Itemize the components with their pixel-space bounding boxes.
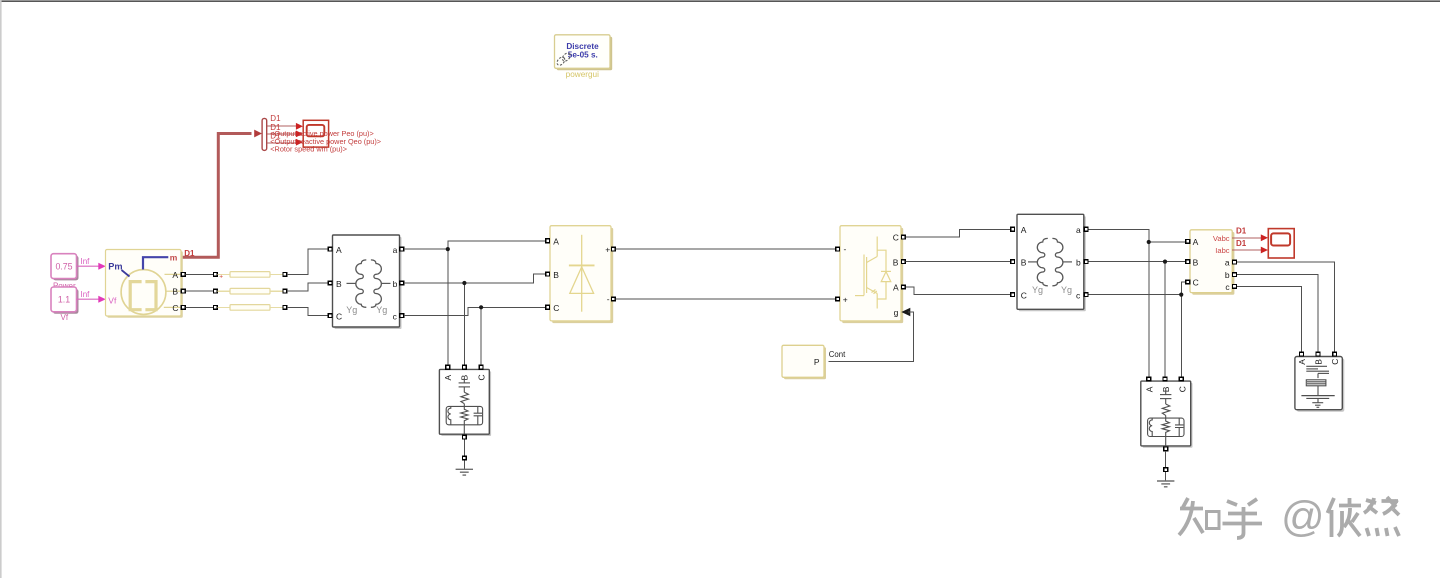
port B t2: [1011, 260, 1015, 264]
wire t2 a to measurement A: [1088, 229, 1185, 242]
wire junction C down to load C: [480, 307, 482, 365]
Pm pointer line: [122, 270, 130, 277]
transformer2 winding right: [1052, 238, 1063, 285]
machine m internal wire: [143, 257, 168, 269]
left window edge: [0, 0, 2, 578]
port B t1: [328, 281, 332, 285]
battery port B: [1316, 352, 1320, 356]
wire junction c up to measurement C: [1181, 282, 1185, 295]
wire t2 c to junction c: [1088, 294, 1181, 296]
svg-text:D1: D1: [1236, 227, 1247, 236]
wire t1 c to rectifier C: [404, 307, 545, 315]
port a meas: [1233, 260, 1237, 264]
svg-text:Cont: Cont: [829, 350, 846, 359]
wire branch C to transformer1 C: [287, 307, 328, 315]
wire junction B down to load B: [463, 283, 465, 365]
node junction C: [479, 305, 483, 309]
transformer1 left stub: [347, 282, 356, 284]
controller P block: [782, 345, 826, 379]
wire junction A up and to rectifier A: [448, 241, 546, 249]
wire t2 b to measurement B: [1088, 261, 1185, 263]
svg-text:D1: D1: [184, 249, 195, 258]
wire meas a to battery C: [1237, 262, 1335, 352]
watermark 知: [1179, 498, 1219, 535]
svg-text:a: a: [1076, 225, 1081, 235]
series RLC branch B: [214, 288, 287, 294]
wire P to g: [829, 312, 914, 361]
port b meas: [1233, 273, 1237, 277]
svg-text:+: +: [605, 244, 610, 254]
svg-text:Vf: Vf: [108, 295, 117, 305]
svg-text:C: C: [1193, 278, 1199, 288]
port C machine: [181, 306, 185, 310]
wire inverter B to t2 B: [906, 261, 1013, 263]
transformer1 winding right: [371, 260, 382, 307]
port plus rectifier: [611, 247, 615, 251]
svg-text:0.75: 0.75: [55, 262, 72, 272]
wire D1 thick (machine m output to bus selector): [182, 134, 252, 258]
svg-text:A: A: [1193, 237, 1199, 247]
node junction A: [446, 247, 450, 251]
node junction c: [1179, 293, 1183, 297]
port a t1: [400, 247, 404, 251]
port B inverter: [901, 260, 905, 264]
svg-text:C: C: [553, 303, 559, 313]
wire ground2: [1165, 472, 1167, 481]
top window edge: [0, 0, 1440, 2]
svg-text:powergui: powergui: [566, 70, 599, 79]
powergui chain icon: [556, 52, 572, 67]
load1 interior RLC icon: [446, 378, 482, 434]
wire t1 b to rectifier B: [404, 274, 545, 283]
battery interior icon: [1301, 366, 1334, 407]
rectifier block (diode bridge): [550, 226, 613, 323]
svg-text:c: c: [1225, 282, 1230, 292]
transformer2 block: [1017, 214, 1086, 311]
transformer1 right stub: [382, 282, 391, 284]
svg-text:C: C: [1330, 359, 1340, 365]
svg-text:-: -: [607, 294, 610, 304]
arrow into Vf: [98, 296, 106, 303]
arrow Vabc into scope2: [1261, 234, 1268, 241]
port c t2: [1084, 293, 1088, 297]
port c t1: [400, 314, 404, 318]
port minus rectifier: [611, 297, 615, 301]
port A machine: [181, 273, 185, 277]
svg-text:C: C: [893, 233, 899, 243]
svg-text:b: b: [1225, 270, 1230, 280]
svg-text:B: B: [1193, 257, 1199, 267]
svg-text:+: +: [219, 273, 223, 280]
svg-text:C: C: [336, 312, 342, 322]
wire branch B to transformer1 B: [287, 283, 328, 291]
svg-text:g: g: [894, 308, 899, 318]
scope2: [1268, 229, 1294, 258]
svg-text:1.1: 1.1: [58, 295, 70, 305]
svg-text:Yg: Yg: [1061, 285, 1072, 295]
port c meas: [1233, 285, 1237, 289]
ground 2 symbol: [1157, 481, 1174, 487]
synchronous machine block: [106, 250, 183, 318]
svg-text:D1: D1: [270, 114, 281, 123]
watermark 然: [1364, 497, 1399, 536]
load2 output port: [1164, 447, 1168, 451]
wire machine B to branch B: [186, 290, 213, 292]
ground1 port: [463, 456, 467, 460]
constant block 0.75: [51, 254, 79, 281]
node junction b: [1163, 260, 1167, 264]
wire load1 to ground port: [463, 440, 465, 456]
svg-text:@: @: [1281, 493, 1325, 541]
wire meas c to battery A: [1237, 286, 1302, 352]
svg-text:Vabc: Vabc: [1213, 234, 1230, 243]
svg-text:C: C: [172, 303, 178, 313]
svg-text:P: P: [814, 357, 820, 367]
port b t2: [1084, 260, 1088, 264]
arrow 1 into scope1: [296, 123, 303, 130]
svg-text:Vf: Vf: [61, 313, 69, 322]
wire Inf (1.1 to Vf): [77, 298, 100, 300]
svg-text:A: A: [172, 270, 178, 280]
port plus inverter: [836, 297, 840, 301]
three-phase VI measurement block: [1190, 230, 1234, 295]
wire machine C to branch C: [186, 306, 213, 308]
wire ground1: [463, 460, 465, 469]
port A t1: [328, 247, 332, 251]
svg-text:B: B: [893, 257, 899, 267]
port A meas: [1186, 240, 1190, 244]
svg-text:C: C: [476, 374, 486, 380]
port B meas: [1186, 260, 1190, 264]
scope U_D1: [303, 120, 328, 147]
three-phase load 1 block: [439, 369, 491, 436]
svg-text:c: c: [393, 312, 398, 322]
wire junction c down to load2 C: [1180, 295, 1182, 377]
svg-text:B: B: [336, 279, 342, 289]
wire t1 a to junction: [404, 248, 448, 250]
svg-text:+: +: [843, 294, 848, 304]
inverter block (IGBT bridge): [840, 226, 903, 323]
node junction a: [1147, 240, 1151, 244]
signal wire 2 from bus selector: [267, 133, 296, 135]
wire junction A down to load A: [447, 249, 449, 365]
transformer2 winding left: [1037, 238, 1048, 285]
wire DC link bottom: [616, 298, 836, 300]
port B rectifier: [546, 272, 550, 276]
load1 port B: [463, 365, 467, 369]
wire DC link top: [616, 248, 836, 250]
wire branch A to transformer1 A: [287, 249, 328, 274]
svg-text:Inf: Inf: [81, 290, 91, 299]
wire inverter C to t2 A: [906, 229, 1013, 237]
load1 port C: [479, 365, 483, 369]
svg-text:Iabc: Iabc: [1215, 246, 1230, 255]
three-phase load 2 block: [1141, 381, 1193, 448]
constant block 1.1: [51, 287, 79, 314]
rectifier diode icon: [569, 235, 595, 312]
powergui block: [555, 35, 613, 71]
svg-text:-: -: [844, 244, 847, 254]
wire junction b down to load2 B: [1164, 262, 1166, 377]
svg-text:A: A: [1021, 225, 1027, 235]
svg-text:A: A: [443, 375, 453, 381]
wire inverter A to t2 C: [906, 287, 1013, 295]
port B machine: [181, 289, 185, 293]
svg-text:A: A: [1144, 386, 1154, 392]
port C t1: [328, 314, 332, 318]
watermark 乎: [1223, 499, 1263, 538]
svg-text:b: b: [1076, 257, 1081, 267]
svg-text:a: a: [393, 245, 398, 255]
arrow Iabc into scope2: [1261, 247, 1268, 254]
series RLC branch C: [214, 305, 287, 311]
battery block (series RLC grounded): [1295, 357, 1344, 412]
svg-text:Yg: Yg: [1032, 285, 1043, 295]
svg-text:B: B: [172, 287, 178, 297]
svg-text:D1: D1: [1236, 239, 1247, 248]
svg-text:m: m: [170, 253, 178, 263]
node junction B: [462, 281, 466, 285]
battery port A: [1300, 352, 1304, 356]
port C t2: [1011, 293, 1015, 297]
transformer1 winding left: [356, 260, 367, 307]
svg-text:Inf: Inf: [81, 257, 91, 266]
svg-text:A: A: [893, 283, 899, 293]
wire junction a down to load2 A: [1148, 242, 1150, 377]
svg-text:A: A: [553, 236, 559, 246]
signal wire 1 from bus selector: [267, 125, 296, 127]
arrow 3 into scope1: [296, 139, 303, 146]
wire Vabc to scope2: [1232, 237, 1262, 239]
load2 interior RLC icon: [1148, 390, 1184, 446]
port A inverter: [901, 285, 905, 289]
load2 port A: [1147, 377, 1151, 381]
wire load2 to ground port: [1165, 451, 1167, 467]
inverter IGBT icon: [855, 237, 891, 309]
transformer2 left stub: [1028, 261, 1037, 263]
svg-text:B: B: [1021, 257, 1027, 267]
port A t2: [1011, 227, 1015, 231]
transformer2 right stub: [1063, 261, 1072, 263]
port C meas: [1186, 280, 1190, 284]
svg-text:<Rotor speed wm (pu)>: <Rotor speed wm (pu)>: [270, 144, 347, 153]
port A rectifier: [546, 239, 550, 243]
load1 port A: [446, 365, 450, 369]
svg-text:A: A: [336, 245, 342, 255]
load1 output port: [463, 435, 467, 439]
svg-text:A: A: [1297, 359, 1307, 365]
arrow into bus selector: [254, 130, 262, 138]
battery port C: [1333, 352, 1337, 356]
ground2 port: [1164, 468, 1168, 472]
svg-text:Pm: Pm: [108, 262, 122, 272]
signal wire 3 from bus selector: [267, 142, 296, 144]
svg-text:Yg: Yg: [376, 305, 387, 315]
bus selector D1: [262, 118, 267, 150]
ground 1 symbol: [456, 469, 473, 475]
arrow into g port: [901, 308, 910, 317]
wire machine A to branch A: [186, 273, 213, 275]
port C rectifier: [546, 305, 550, 309]
arrow 2 into scope1: [296, 131, 303, 138]
series RLC branch A: [214, 272, 287, 278]
port a t2: [1084, 227, 1088, 231]
load2 port B: [1163, 377, 1167, 381]
svg-text:Discrete: Discrete: [566, 42, 599, 51]
arrow into Pm: [98, 263, 106, 270]
wire meas b to battery B: [1237, 275, 1318, 352]
load2 port C: [1179, 377, 1183, 381]
svg-text:B: B: [1313, 359, 1323, 365]
svg-text:b: b: [393, 279, 398, 289]
wire Iabc to scope2: [1232, 249, 1262, 251]
svg-text:Yg: Yg: [346, 305, 357, 315]
wire Inf (0.75 to Pm): [77, 265, 100, 267]
watermark 依: [1328, 498, 1362, 537]
port C inverter: [901, 235, 905, 239]
port minus inverter: [836, 247, 840, 251]
transformer1 block: [333, 235, 402, 329]
svg-text:C: C: [1021, 290, 1027, 300]
port b t1: [400, 281, 404, 285]
svg-text:B: B: [553, 270, 559, 280]
svg-text:a: a: [1225, 258, 1230, 268]
svg-text:5e-05 s.: 5e-05 s.: [568, 51, 598, 60]
svg-text:C: C: [1178, 386, 1188, 392]
